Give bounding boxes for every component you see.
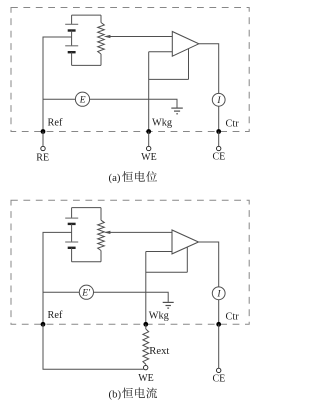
node Ref (b) xyxy=(41,322,46,327)
wire Ref node to WE terminal xyxy=(43,324,144,369)
caption (b) heng-dian-liu xyxy=(109,387,158,400)
svg-text:E′: E′ xyxy=(81,289,91,299)
wire battery-potentiometer top xyxy=(72,14,101,16)
resistor Rext xyxy=(143,324,149,365)
node Wkg (b) xyxy=(143,322,148,327)
terminal RE xyxy=(41,132,45,151)
potentiometer wiper arrow / wire to op-amp noninverting input xyxy=(104,35,173,38)
wire op-amp output xyxy=(199,44,219,94)
wire ammeter to Ctr node xyxy=(218,106,220,131)
ammeter I (b) xyxy=(212,287,225,300)
wire voltmeter to ground xyxy=(90,99,177,107)
svg-text:Ctr: Ctr xyxy=(226,119,240,130)
ground (b) xyxy=(163,302,174,308)
wire voltmeter to ground (b) xyxy=(94,292,169,302)
wire op-amp inverting input (b) xyxy=(146,251,172,253)
wire inverting input down to Wkg node (b) xyxy=(145,252,147,325)
terminal WE xyxy=(147,132,151,151)
node Ctr (b) xyxy=(216,322,221,327)
wire inverting input down to Wkg node xyxy=(148,52,150,132)
ground xyxy=(171,108,183,114)
svg-text:Rext: Rext xyxy=(149,346,169,357)
potentiometer R1 (zigzag) xyxy=(98,15,105,65)
wire Ref branch to voltmeter xyxy=(43,98,75,100)
wire battery-potentiometer bottom (b) xyxy=(72,261,101,263)
wire feedback bottom (b) xyxy=(146,271,188,273)
svg-text:Ref: Ref xyxy=(48,310,63,321)
op-amp U1 xyxy=(172,32,199,57)
potentiometer wiper arrow / wire to op-amp noninverting input (b) xyxy=(104,231,172,234)
voltmeter E (circle meter) xyxy=(75,92,89,106)
svg-text:Ctr: Ctr xyxy=(226,311,240,322)
wire battery-potentiometer bottom xyxy=(72,64,101,66)
wire feedback bottom xyxy=(149,78,189,80)
wire battery tap to Ref node (b) xyxy=(43,232,72,324)
svg-text:(a): (a) xyxy=(109,172,121,184)
wire battery tap to Ref node xyxy=(43,37,72,132)
terminal WE (b) xyxy=(144,365,148,369)
node Ref xyxy=(41,129,46,134)
potentiometer R2 (zigzag) xyxy=(98,208,105,262)
svg-text:Ref: Ref xyxy=(48,117,63,128)
ammeter I (circle meter) xyxy=(212,93,225,106)
wire ammeter to Ctr node (b) xyxy=(218,300,220,325)
svg-text:RE: RE xyxy=(36,152,49,163)
battery B1 (two cells) xyxy=(65,15,78,65)
svg-text:WE: WE xyxy=(141,152,157,163)
battery B2 (two cells) xyxy=(65,208,78,262)
caption (a) heng-dian-wei xyxy=(109,171,158,184)
svg-text:Wkg: Wkg xyxy=(152,118,172,129)
voltmeter E' (circle meter) xyxy=(79,285,93,299)
node Wkg xyxy=(146,129,151,134)
op-amp U2 xyxy=(172,230,199,254)
wire battery-potentiometer top (b) xyxy=(72,207,101,209)
wire op-amp output (b) xyxy=(199,242,219,287)
figure (a) dashed enclosure box xyxy=(11,8,249,132)
wire feedback to op-amp output edge (b) xyxy=(186,247,188,272)
node Ctr xyxy=(216,129,221,134)
wire Ref branch to voltmeter (b) xyxy=(43,291,79,293)
figure (b) dashed enclosure box xyxy=(11,200,249,324)
wire feedback to op-amp output edge xyxy=(188,48,190,79)
svg-text:CE: CE xyxy=(213,151,226,162)
terminal CE (b) xyxy=(217,368,221,372)
svg-text:E: E xyxy=(79,96,86,106)
wire Ctr node to CE terminal xyxy=(218,324,220,368)
wire op-amp inverting input xyxy=(149,51,173,53)
svg-text:CE: CE xyxy=(213,373,226,384)
svg-text:WE: WE xyxy=(138,373,154,384)
svg-text:(b): (b) xyxy=(109,388,122,400)
terminal CE xyxy=(217,132,221,151)
svg-text:Wkg: Wkg xyxy=(149,310,169,321)
